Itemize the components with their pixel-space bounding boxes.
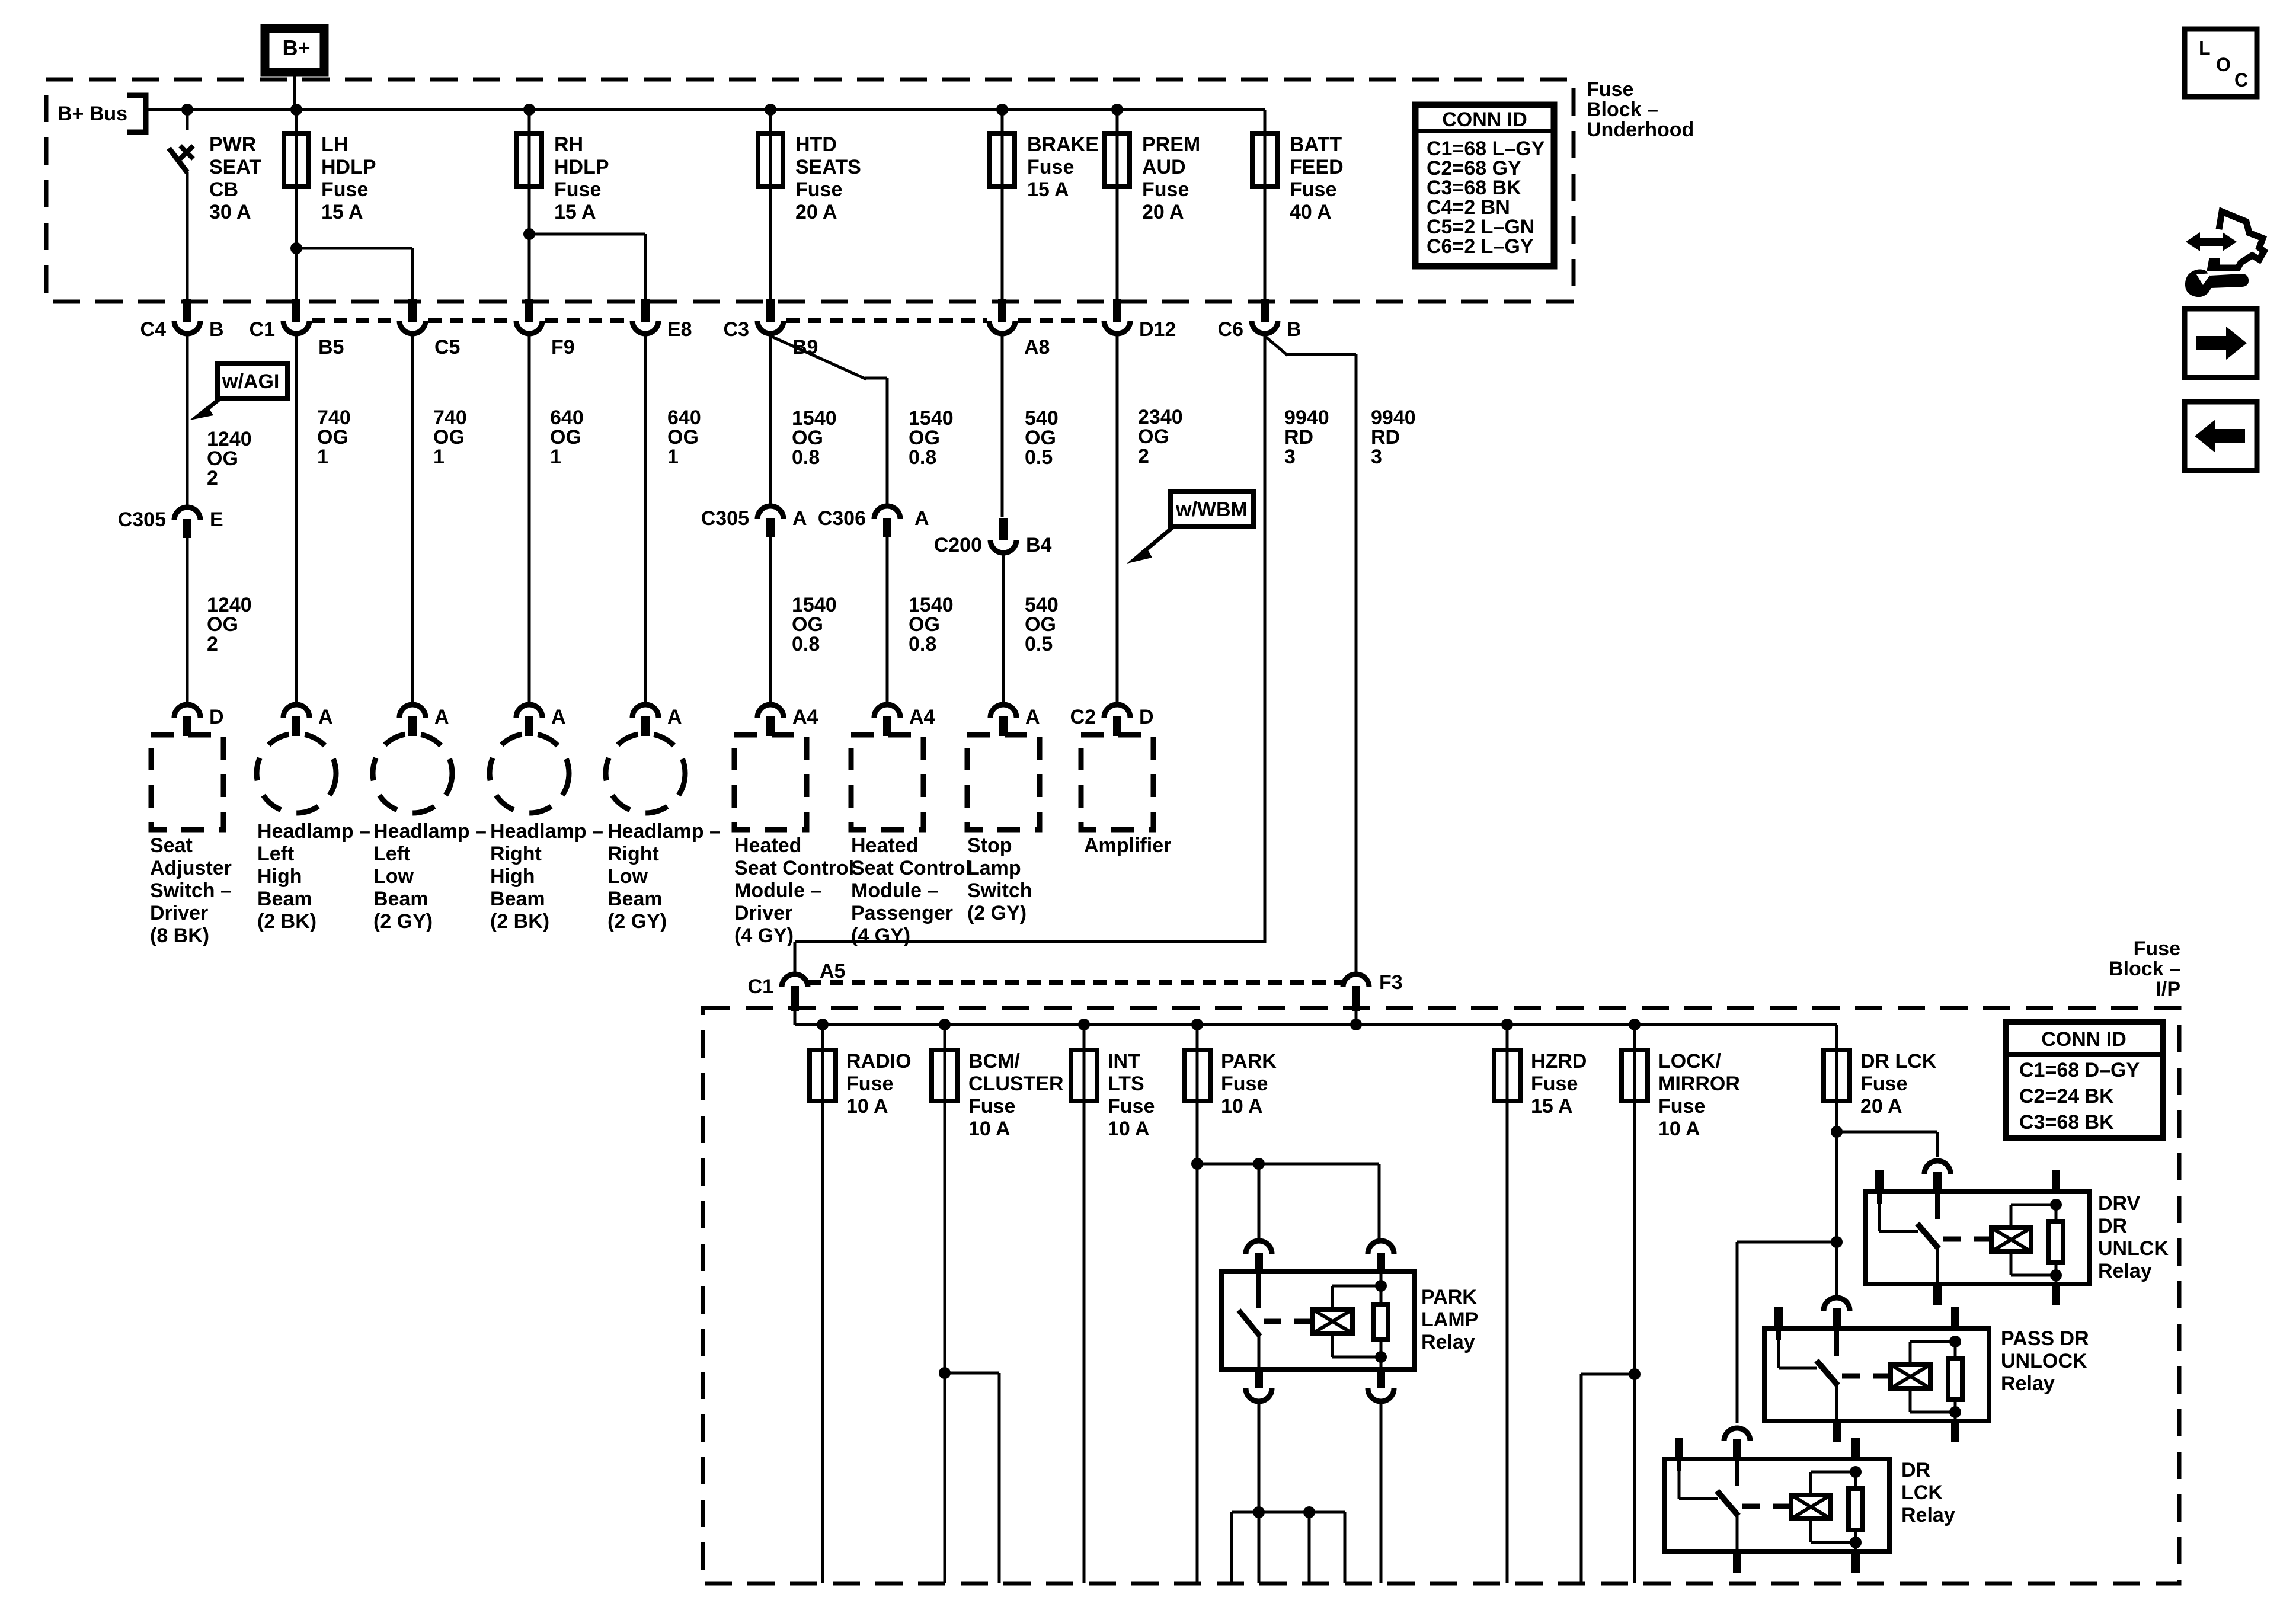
svg-text:10 A: 10 A [968, 1118, 1011, 1140]
relay DRV DR UNLCK pin2 connector arc [1924, 1161, 1950, 1174]
svg-text:C1: C1 [250, 318, 275, 341]
svg-text:LTS: LTS [1108, 1073, 1144, 1095]
svg-text:PREM: PREM [1142, 133, 1200, 156]
svg-text:Underhood: Underhood [1587, 119, 1694, 141]
svg-text:LH: LH [321, 133, 348, 156]
svg-text:O: O [2216, 54, 2231, 75]
wire DR LCK fuse down [1835, 1101, 1838, 1295]
svg-text:1: 1 [317, 446, 328, 468]
branch RH HDLP to E8 [523, 228, 535, 240]
svg-text:AUD: AUD [1142, 156, 1186, 178]
svg-text:LCK: LCK [1901, 1481, 1943, 1504]
svg-text:C200: C200 [934, 534, 982, 556]
connector pin A (stop lamp switch) [990, 705, 1016, 718]
power node B+ [265, 28, 324, 72]
svg-text:A: A [551, 706, 566, 728]
connector pin A (headlamp RH high) [516, 705, 542, 718]
svg-text:I/P: I/P [2156, 978, 2180, 1000]
svg-text:0.8: 0.8 [909, 633, 936, 655]
park relay switch pin bottom connector [1255, 1369, 1263, 1388]
relay DR LCK coil [1791, 1495, 1831, 1519]
svg-text:15 A: 15 A [1027, 178, 1069, 201]
svg-text:Headlamp –: Headlamp – [373, 820, 487, 843]
amplifier [1081, 735, 1153, 830]
wire branch C3 to C306 label 1540 OG 0.8 [770, 336, 866, 379]
svg-text:Module –: Module – [734, 879, 821, 902]
fuse block I/P dashed box [703, 1008, 2179, 1583]
svg-text:B+ Bus: B+ Bus [57, 103, 127, 125]
relay DRV DR UNLCK coil loop [2011, 1204, 2056, 1206]
wire F9 to headlamp RH high [528, 336, 531, 703]
svg-text:Seat: Seat [150, 834, 193, 857]
svg-text:A: A [792, 507, 807, 530]
svg-text:Right: Right [607, 843, 659, 865]
svg-text:Fuse: Fuse [1221, 1073, 1268, 1095]
relay PASS DR UNLOCK pin2 connector arc [1824, 1298, 1850, 1311]
svg-text:Block –: Block – [2109, 958, 2180, 980]
connector F3 (I/P) [1343, 974, 1369, 987]
fuse DR LCK 20A [1835, 1025, 1838, 1050]
svg-text:INT: INT [1108, 1050, 1140, 1073]
svg-text:15 A: 15 A [321, 201, 363, 223]
svg-text:(2 GY): (2 GY) [607, 910, 667, 933]
branch DR LCK to DRV DR UNLCK relay [1837, 1131, 1937, 1134]
wire B+ to bus [293, 76, 296, 110]
svg-text:RADIO: RADIO [846, 1050, 912, 1073]
svg-text:Fuse: Fuse [968, 1095, 1015, 1118]
LOC reference box [2185, 29, 2257, 97]
wire PARK fuse down to bottom [1196, 1101, 1199, 1583]
svg-text:High: High [257, 865, 302, 888]
svg-text:Relay: Relay [1421, 1331, 1475, 1353]
relay DRV DR UNLCK switch [1878, 1204, 1881, 1231]
svg-text:Fuse: Fuse [1027, 156, 1074, 178]
svg-text:Fuse: Fuse [1658, 1095, 1705, 1118]
connector C200 pin B4 [999, 518, 1008, 540]
wire A8 to C200 label 540 OG 0.5 [1001, 336, 1004, 517]
connector F9 [525, 299, 533, 322]
wire right drop 9940 RD 3 to F3 [1355, 354, 1358, 973]
relay DR LCK resistor [1854, 1472, 1857, 1489]
svg-text:E8: E8 [667, 318, 692, 341]
svg-text:2: 2 [1138, 445, 1149, 468]
svg-text:Lamp: Lamp [967, 857, 1021, 879]
svg-text:SEATS: SEATS [795, 156, 861, 178]
wire LOCK/MIRROR fuse down with jog [1633, 1101, 1636, 1583]
splice bar under park relay [1232, 1511, 1345, 1514]
connector dotted line C3 to D12 [786, 318, 987, 323]
svg-text:Driver: Driver [150, 902, 208, 924]
wire INT LTS fuse to bottom [1083, 1101, 1086, 1583]
svg-text:Fuse: Fuse [795, 178, 842, 201]
CONN ID table I/P [2006, 1022, 2163, 1138]
svg-text:Fuse: Fuse [1860, 1073, 1907, 1095]
svg-text:DR LCK: DR LCK [1860, 1050, 1937, 1073]
svg-text:2: 2 [207, 633, 218, 655]
svg-text:Amplifier: Amplifier [1084, 834, 1171, 857]
svg-text:DR: DR [2098, 1215, 2127, 1237]
svg-text:B: B [1287, 318, 1302, 341]
svg-text:PARK: PARK [1221, 1050, 1277, 1073]
svg-text:Fuse: Fuse [321, 178, 368, 201]
svg-text:C305: C305 [118, 508, 166, 531]
svg-text:Fuse: Fuse [1108, 1095, 1155, 1118]
svg-text:FEED: FEED [1290, 156, 1344, 178]
svg-text:20 A: 20 A [1142, 201, 1184, 223]
stop lamp switch [967, 735, 1040, 830]
svg-text:C305: C305 [701, 507, 749, 530]
svg-text:HTD: HTD [795, 133, 837, 156]
svg-text:15 A: 15 A [554, 201, 596, 223]
branch LH HDLP to C5 [290, 242, 302, 254]
wire C5 to headlamp LH low [411, 336, 414, 703]
connector C1 pin B5 [292, 299, 300, 322]
wire C6 left drop 9940 RD 3 [1264, 336, 1267, 943]
relay DR LCK pin stubs [1675, 1438, 1683, 1460]
relay DR LCK switch [1678, 1471, 1681, 1499]
svg-text:w/WBM: w/WBM [1175, 498, 1248, 521]
headlamp left high beam [257, 734, 336, 813]
seat adjuster switch driver [151, 735, 223, 830]
svg-text:Relay: Relay [2001, 1372, 2055, 1395]
connector C5 [408, 299, 417, 322]
svg-text:C1=68 D–GY: C1=68 D–GY [2019, 1059, 2140, 1081]
park relay linkage dashes [1264, 1319, 1313, 1324]
svg-text:20 A: 20 A [795, 201, 837, 223]
svg-text:Fuse: Fuse [1290, 178, 1336, 201]
relay DR LCK pin2 connector arc [1724, 1428, 1750, 1441]
svg-text:(2 GY): (2 GY) [967, 902, 1027, 924]
connector pin A (headlamp RH low) [632, 705, 658, 718]
left arrow box [2185, 402, 2257, 470]
svg-text:(8 BK): (8 BK) [150, 924, 209, 947]
svg-text:C6=2 L–GY: C6=2 L–GY [1427, 235, 1534, 258]
svg-text:C2: C2 [1070, 706, 1096, 728]
svg-text:(4 GY): (4 GY) [734, 924, 794, 947]
svg-text:HZRD: HZRD [1531, 1050, 1587, 1073]
relay DR LCK linkage dashes [1742, 1504, 1791, 1509]
svg-text:L: L [2199, 37, 2211, 59]
svg-text:0.8: 0.8 [792, 446, 820, 469]
svg-text:0.5: 0.5 [1025, 446, 1053, 469]
svg-text:(2 BK): (2 BK) [257, 910, 316, 933]
svg-text:C6: C6 [1218, 318, 1243, 341]
wire BCM fuse down with jog [944, 1101, 946, 1583]
circuit breaker PWR SEAT CB 30 A [186, 110, 189, 130]
relay DRV DR UNLCK pin stubs [1875, 1170, 1884, 1193]
fuse BRAKE 15A [1001, 110, 1004, 299]
svg-text:A: A [434, 706, 449, 728]
svg-text:Relay: Relay [2098, 1260, 2152, 1282]
svg-text:0.5: 0.5 [1025, 633, 1053, 655]
svg-text:HDLP: HDLP [554, 156, 609, 178]
svg-text:C5: C5 [434, 336, 460, 359]
I/P bus wire [794, 1011, 797, 1025]
wire C200 to stop lamp switch label 540 OG 0.5 [1002, 555, 1005, 703]
svg-text:Right: Right [490, 843, 542, 865]
connector dotted line C1 to E8 [312, 318, 397, 323]
park relay switch blade [1239, 1310, 1260, 1336]
heated seat control module passenger [851, 735, 923, 830]
svg-text:CB: CB [209, 178, 238, 201]
CONN ID table underhood [1415, 105, 1554, 266]
svg-text:HDLP: HDLP [321, 156, 376, 178]
wire C305 to heated seat driver label 1540 OG 0.8 [769, 537, 772, 703]
diagnostic car icon [2211, 212, 2264, 268]
svg-text:Headlamp –: Headlamp – [257, 820, 370, 843]
svg-text:3: 3 [1371, 446, 1382, 468]
wire C4 to C305 with label 1240 OG 2 [186, 336, 189, 506]
svg-text:High: High [490, 865, 535, 888]
svg-text:A8: A8 [1024, 336, 1050, 359]
wire RADIO fuse to bottom [821, 1101, 824, 1583]
svg-text:A: A [1025, 706, 1040, 728]
svg-text:Left: Left [257, 843, 294, 865]
svg-text:20 A: 20 A [1860, 1095, 1902, 1118]
relay PARK LAMP box [1221, 1272, 1415, 1369]
svg-text:MIRROR: MIRROR [1658, 1073, 1740, 1095]
fuse block underhood dashed box [46, 79, 1574, 302]
svg-text:DR: DR [1901, 1459, 1930, 1481]
svg-text:Relay: Relay [1901, 1504, 1955, 1526]
svg-text:E: E [210, 508, 223, 531]
svg-text:UNLCK: UNLCK [2098, 1237, 2169, 1260]
connector D12 [1113, 299, 1121, 322]
svg-text:BCM/: BCM/ [968, 1050, 1020, 1073]
wire park relay coil out to bottom [1380, 1404, 1383, 1583]
svg-text:Heated: Heated [851, 834, 918, 857]
svg-text:Module –: Module – [851, 879, 938, 902]
wire park relay switch out to splice [1258, 1404, 1261, 1512]
wire HZRD fuse to bottom [1506, 1101, 1509, 1583]
svg-text:Switch –: Switch – [150, 879, 232, 902]
svg-text:10 A: 10 A [1108, 1118, 1150, 1140]
svg-text:Fuse: Fuse [2134, 937, 2180, 960]
w/WBM callout [1171, 491, 1253, 526]
fuse BCM/CLUSTER 10A [944, 1025, 946, 1050]
svg-text:0.8: 0.8 [792, 633, 820, 655]
svg-text:Beam: Beam [257, 888, 312, 910]
svg-text:2: 2 [207, 467, 218, 489]
svg-text:Switch: Switch [967, 879, 1032, 902]
fuse INT LTS 10A [1083, 1025, 1086, 1050]
wire left 9940 route to C1/A5 [795, 940, 1265, 943]
svg-text:Headlamp –: Headlamp – [490, 820, 603, 843]
svg-text:BRAKE: BRAKE [1027, 133, 1099, 156]
wire C1 to headlamp LH high [295, 336, 298, 703]
connector C305 pin E [174, 507, 200, 520]
branch PARK fuse to park lamp relay [1197, 1163, 1379, 1166]
connector C2 pin D (amplifier) [1104, 705, 1130, 718]
svg-text:A: A [318, 706, 333, 728]
svg-text:B5: B5 [318, 336, 344, 359]
svg-text:DRV: DRV [2098, 1192, 2140, 1215]
wire E8 to headlamp RH low [644, 336, 647, 703]
svg-text:C2=24 BK: C2=24 BK [2019, 1085, 2114, 1108]
svg-text:C306: C306 [818, 507, 866, 530]
svg-text:B+: B+ [282, 36, 310, 60]
park relay switch pin connector [1246, 1241, 1272, 1254]
svg-text:Heated: Heated [734, 834, 801, 857]
relay PASS DR UNLOCK resistor [1954, 1342, 1957, 1358]
svg-text:SEAT: SEAT [209, 156, 261, 178]
svg-text:Adjuster: Adjuster [150, 857, 232, 879]
svg-text:A5: A5 [820, 960, 845, 982]
connector C306 pin A [874, 506, 900, 519]
svg-text:A: A [914, 507, 929, 530]
right arrow box [2185, 309, 2257, 377]
relay PASS DR UNLOCK box [1764, 1329, 1989, 1421]
relay PASS DR UNLOCK pin stubs [1774, 1307, 1783, 1330]
svg-text:40 A: 40 A [1290, 201, 1332, 223]
fuse LH HDLP 15A [295, 110, 298, 299]
relay DRV DR UNLCK resistor [2055, 1205, 2058, 1221]
svg-text:(2 GY): (2 GY) [373, 910, 433, 933]
fuse PREM AUD 20A [1116, 110, 1119, 299]
park relay coil loop wires [1332, 1285, 1381, 1288]
svg-text:BATT: BATT [1290, 133, 1342, 156]
connector C1 pin A5 (I/P) [782, 974, 808, 987]
svg-text:CONN ID: CONN ID [2041, 1028, 2126, 1051]
relay PASS DR UNLOCK switch [1777, 1340, 1780, 1368]
wire bus corner to DR LCK fuse [1835, 1025, 1838, 1050]
B+ bus wire [146, 108, 1265, 111]
park relay coil pin top connector [1368, 1241, 1394, 1254]
svg-text:Fuse: Fuse [554, 178, 601, 201]
svg-text:RH: RH [554, 133, 583, 156]
fuse RADIO 10A [821, 1025, 824, 1050]
relay PASS DR UNLOCK coil loop [1910, 1340, 1955, 1343]
svg-text:15 A: 15 A [1531, 1095, 1573, 1118]
svg-text:Seat Control: Seat Control [734, 857, 854, 879]
svg-text:10 A: 10 A [846, 1095, 888, 1118]
connector pin D (seat adjuster) [174, 705, 200, 718]
svg-text:A: A [667, 706, 682, 728]
svg-text:CONN ID: CONN ID [1442, 108, 1527, 131]
relay PASS DR UNLOCK coil [1891, 1365, 1930, 1388]
connector pin A (headlamp LH low) [399, 705, 426, 718]
svg-text:(2 BK): (2 BK) [490, 910, 549, 933]
connector pin A (headlamp LH high) [283, 705, 309, 718]
park relay coil pin bottom connector [1377, 1369, 1385, 1388]
svg-text:C3=68 BK: C3=68 BK [2019, 1111, 2114, 1134]
relay DRV DR UNLCK coil [1991, 1228, 2031, 1251]
svg-text:A4: A4 [909, 706, 935, 728]
svg-text:UNLOCK: UNLOCK [2001, 1350, 2087, 1372]
svg-text:Driver: Driver [734, 902, 792, 924]
relay DRV DR UNLCK box [1865, 1192, 2090, 1284]
svg-text:30 A: 30 A [209, 201, 251, 223]
svg-text:Fuse: Fuse [1142, 178, 1189, 201]
connector dotted line A5 to F3 [808, 980, 1343, 985]
relay DRV DR UNLCK linkage dashes [1943, 1237, 1991, 1242]
fuse HTD SEATS 20A [769, 110, 772, 299]
svg-text:CLUSTER: CLUSTER [968, 1073, 1064, 1095]
svg-text:D: D [1139, 706, 1154, 728]
park relay coil [1313, 1310, 1352, 1333]
svg-text:LAMP: LAMP [1421, 1308, 1478, 1331]
svg-text:Block –: Block – [1587, 98, 1658, 121]
fuse LOCK/MIRROR 10A [1633, 1025, 1636, 1050]
wire C306 to heated seat passenger label 1540 OG 0.8 [886, 537, 889, 703]
headlamp right low beam [606, 734, 685, 813]
connector pin A4 (heated seat passenger) [874, 705, 900, 718]
svg-text:Fuse: Fuse [846, 1073, 893, 1095]
fuse PARK 10A [1196, 1025, 1199, 1050]
B+ bus bracket and label [127, 95, 146, 132]
svg-text:10 A: 10 A [1221, 1095, 1263, 1118]
wire C6 diagonal to right drop [1265, 336, 1288, 356]
svg-text:F3: F3 [1379, 971, 1403, 994]
svg-text:LOCK/: LOCK/ [1658, 1050, 1721, 1073]
svg-text:Left: Left [373, 843, 410, 865]
headlamp right high beam [490, 734, 569, 813]
svg-text:A4: A4 [792, 706, 818, 728]
connector E8 [641, 299, 650, 322]
svg-text:B: B [209, 318, 224, 341]
svg-text:1: 1 [550, 446, 561, 468]
svg-text:Low: Low [373, 865, 414, 888]
svg-text:0.8: 0.8 [909, 446, 936, 469]
svg-text:Beam: Beam [373, 888, 428, 910]
svg-text:D: D [209, 706, 224, 728]
relay DR LCK coil loop [1811, 1471, 1856, 1474]
svg-text:Beam: Beam [490, 888, 545, 910]
wire C3 to C305(A) label 1540 OG 0.8 [769, 336, 772, 505]
connector A8 [998, 299, 1006, 322]
svg-text:C1: C1 [748, 975, 773, 998]
wire D12 to amplifier label 2340 OG 2 [1116, 336, 1119, 703]
svg-text:F9: F9 [551, 336, 575, 359]
svg-text:3: 3 [1284, 446, 1296, 468]
svg-text:C3: C3 [724, 318, 749, 341]
relay DR LCK box [1665, 1459, 1889, 1551]
fuse HZRD 15A [1506, 1025, 1509, 1050]
branch DR LCK wire to DR LCK relay [1737, 1241, 1837, 1244]
w/AGI callout [218, 363, 287, 398]
svg-text:Passenger: Passenger [851, 902, 953, 924]
relay PASS DR UNLOCK linkage dashes [1842, 1374, 1891, 1379]
svg-text:Fuse: Fuse [1587, 78, 1633, 101]
fuse RH HDLP 15A [528, 110, 531, 299]
svg-text:1: 1 [667, 446, 679, 468]
park relay resistor [1380, 1272, 1383, 1305]
svg-text:w/AGI: w/AGI [222, 370, 279, 393]
svg-text:Fuse: Fuse [1531, 1073, 1578, 1095]
heated seat control module driver [734, 735, 807, 830]
svg-text:Beam: Beam [607, 888, 663, 910]
connector C305 pin A [757, 506, 784, 519]
svg-text:PWR: PWR [209, 133, 256, 156]
svg-text:Seat Control: Seat Control [851, 857, 971, 879]
svg-text:PASS DR: PASS DR [2001, 1327, 2089, 1350]
connector C3 pin B9 [766, 299, 775, 322]
svg-text:B4: B4 [1026, 534, 1052, 556]
svg-text:(4 GY): (4 GY) [851, 924, 910, 947]
fuse BATT FEED 40A [1264, 110, 1267, 299]
svg-text:10 A: 10 A [1658, 1118, 1700, 1140]
svg-text:Stop: Stop [967, 834, 1012, 857]
svg-text:1: 1 [433, 446, 445, 468]
headlamp left low beam [373, 734, 452, 813]
connector pin A4 (heated seat driver) [757, 705, 784, 718]
wire C305 to seat switch with label 1240 OG 2 [186, 538, 189, 703]
svg-text:Headlamp –: Headlamp – [607, 820, 721, 843]
svg-text:Low: Low [607, 865, 648, 888]
svg-text:C: C [2234, 69, 2248, 91]
svg-text:D12: D12 [1139, 318, 1176, 341]
connector C4 pin B [183, 299, 191, 322]
